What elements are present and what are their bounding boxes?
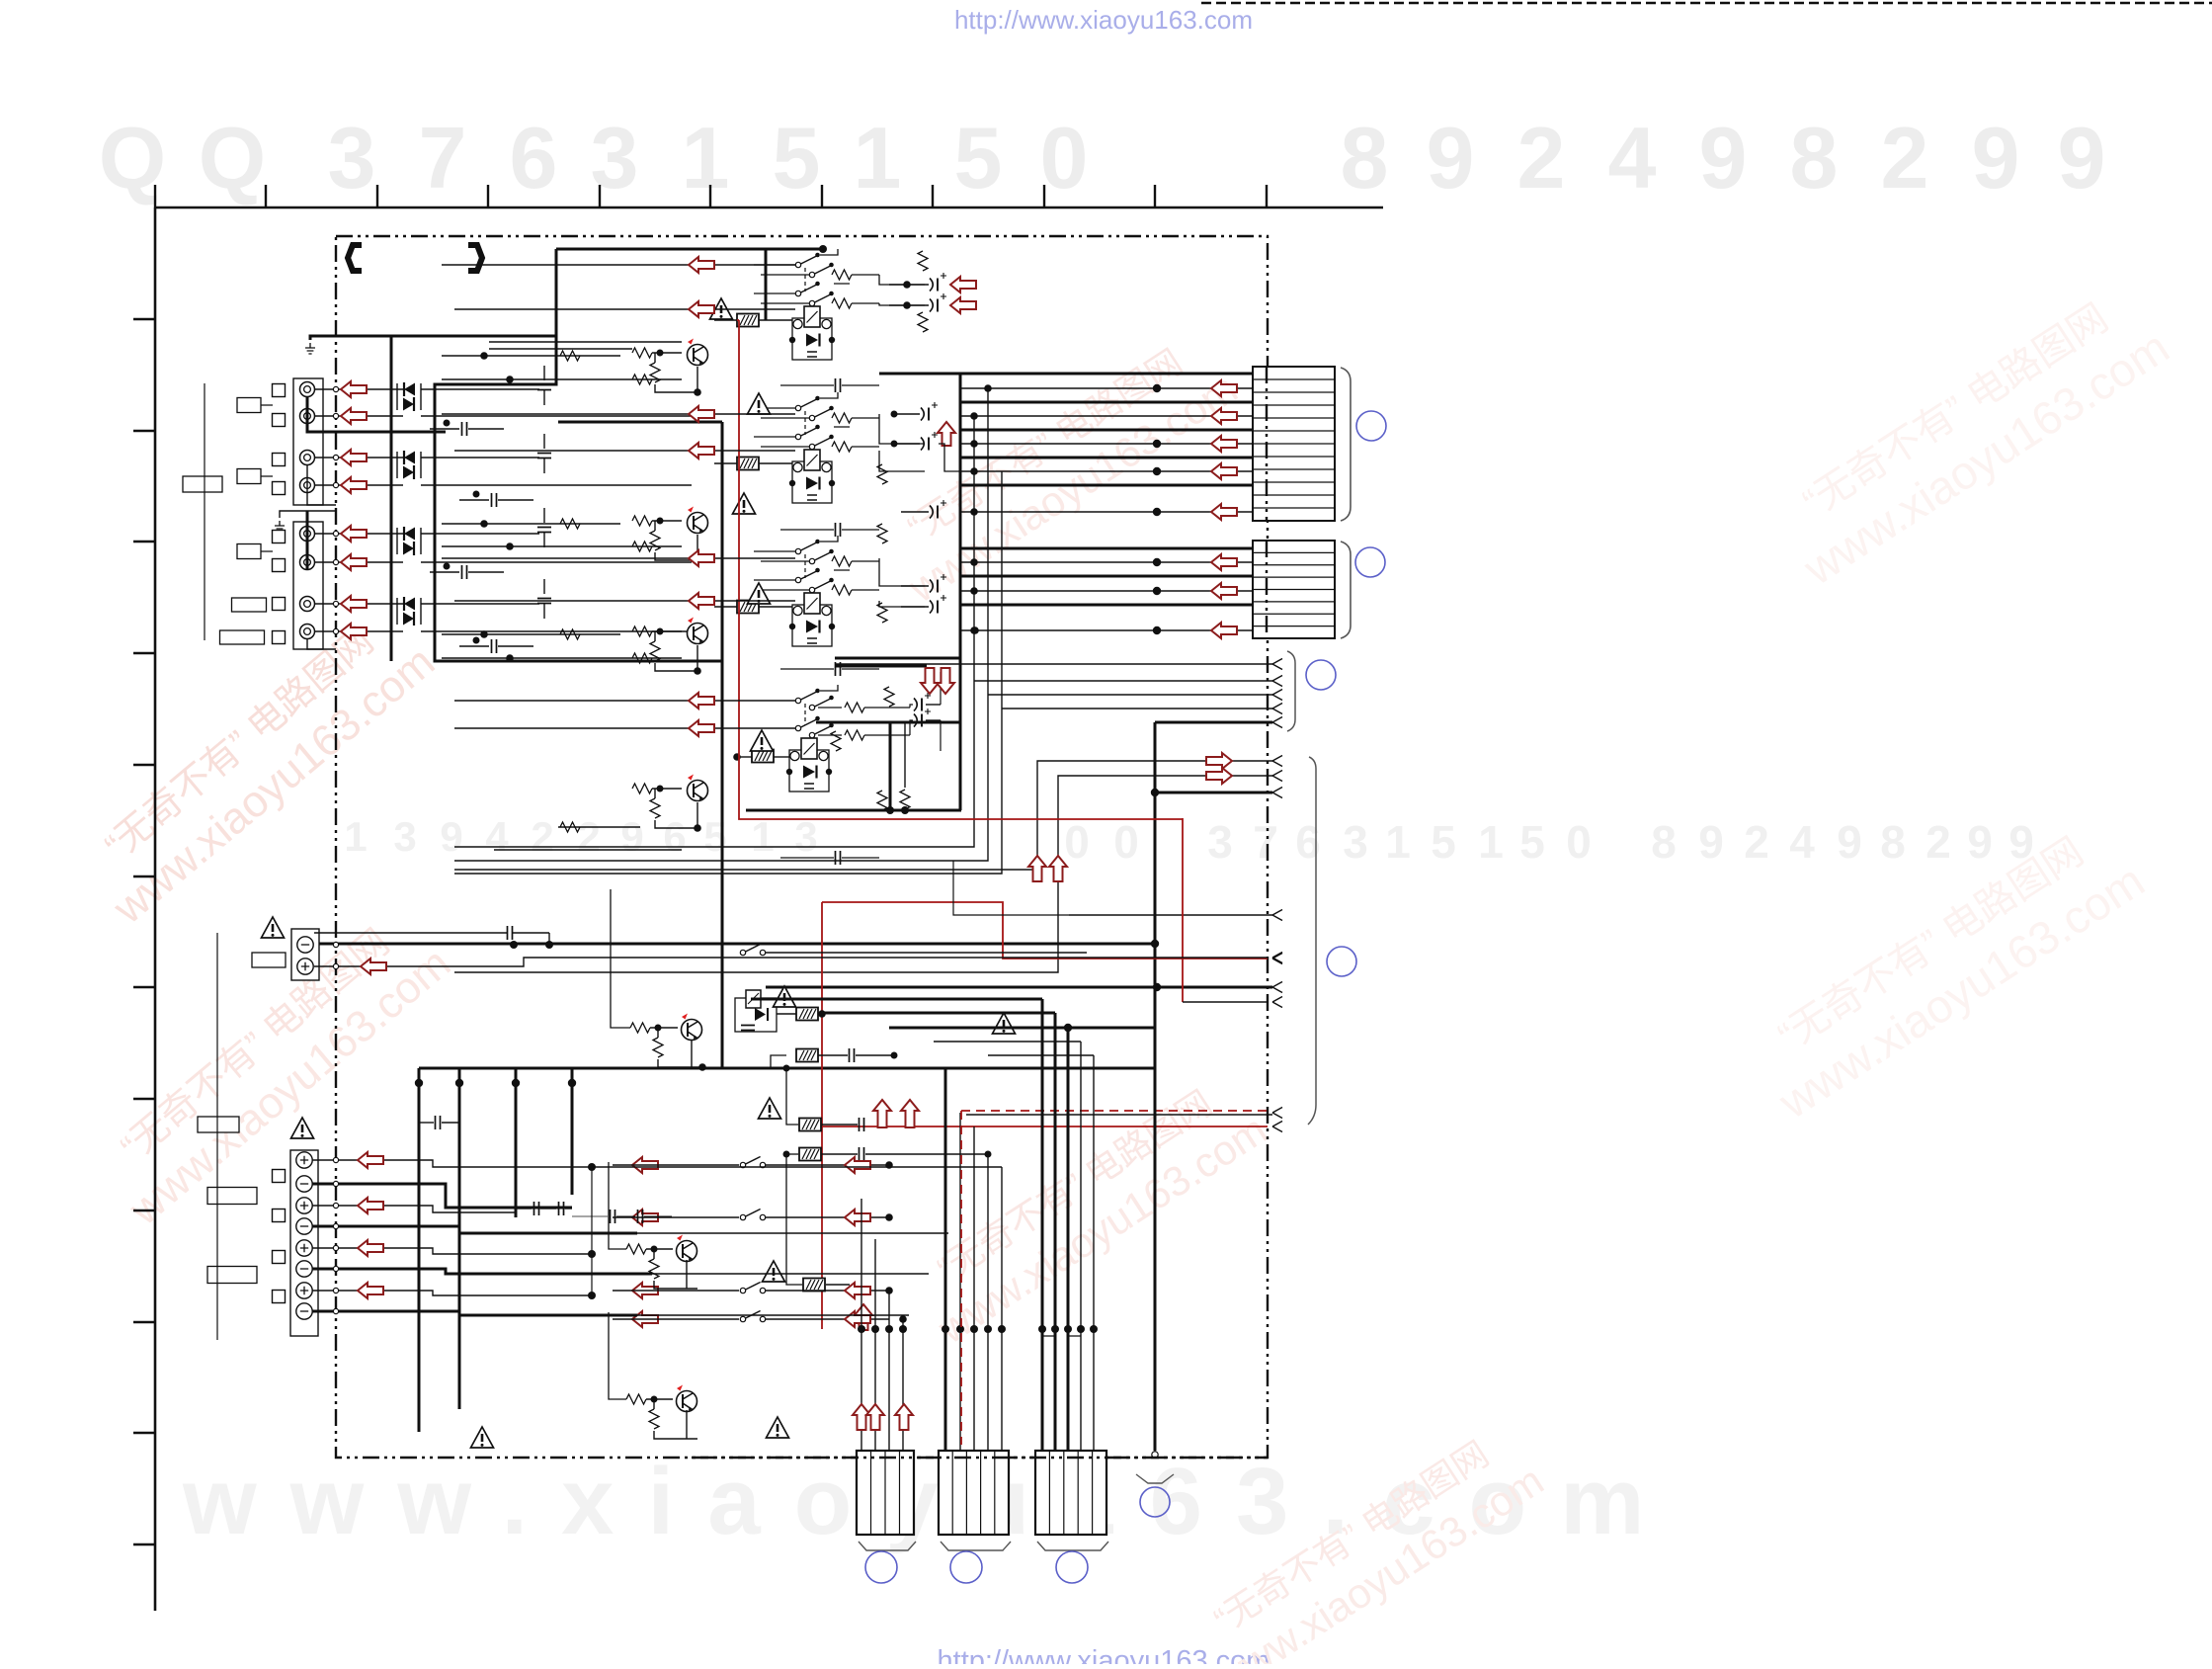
contact set C2 (809, 549, 834, 564)
junction (444, 420, 451, 427)
bundle-C wire 2 (1054, 1013, 1057, 1451)
arrow to CN-B (1211, 583, 1237, 599)
svg-text:9: 9 (1837, 816, 1862, 868)
coupling capacitor (537, 385, 551, 390)
junction on ground bus (1151, 789, 1159, 796)
mid relay cap (741, 1026, 755, 1031)
red supply wire drop (1182, 818, 1184, 1002)
bundle-A wire 2 (874, 1239, 876, 1451)
junction (885, 1287, 893, 1294)
jack block 1 outline (293, 378, 323, 505)
contact series resistor (832, 556, 852, 566)
shield collector riser 3 (454, 471, 1002, 874)
clamp diode @(414,463) (404, 451, 415, 464)
contact set C1 (795, 540, 820, 554)
wire-end arrowhead (1272, 953, 1282, 963)
jack signal wire y=463 (314, 457, 403, 459)
arrow on contact wire (632, 1157, 658, 1173)
series resistor (560, 822, 580, 832)
jack signal wire y=540 (314, 533, 403, 535)
wire to CN-B pin 1 (960, 547, 1253, 550)
relay C bottom rail y=666 (835, 657, 960, 660)
bottom up arrow 1 (853, 1404, 870, 1430)
relay cap B (836, 523, 841, 537)
junction on CN-A wire (1153, 508, 1161, 516)
bundle-C wire 3 (1080, 1042, 1082, 1451)
contact common wire (754, 392, 838, 408)
jack arrow (341, 624, 367, 639)
terminal (-) (296, 1261, 312, 1277)
svg-text:9: 9 (1427, 109, 1475, 207)
resistor feeds (786, 1068, 798, 1125)
jack shield stub 2 (307, 638, 336, 649)
contact set D3 (795, 716, 820, 731)
wire-end arrowhead (1272, 676, 1282, 687)
clamp diode @(414,409) (403, 397, 414, 411)
collector junction (970, 508, 978, 516)
boundary pin (333, 601, 338, 606)
red supply joins resistor boxes (737, 319, 739, 321)
boundary pin (333, 1266, 338, 1271)
down arrow 2 (937, 668, 954, 694)
contact output wire (766, 1164, 889, 1166)
red wire to exit y=970 (822, 902, 1268, 959)
electrolytic cap C-B2 (921, 432, 938, 451)
up arrow right 1 (1028, 856, 1046, 881)
svg-text:8: 8 (1880, 816, 1906, 868)
bundle-C wire 3 (1067, 1028, 1070, 1451)
component pad square 5 (273, 531, 286, 543)
interconnect wire (442, 523, 620, 525)
wire to CN-B pin 6 (960, 629, 1253, 631)
contact D common (820, 685, 838, 691)
Q5 base resistor (630, 1023, 650, 1033)
jog into cap D2 (910, 720, 913, 735)
fusible resistor feeding RY4 (752, 750, 774, 763)
terminal (-) (296, 1218, 312, 1234)
return drop x=424 (418, 1068, 421, 1432)
down arrow 1 (921, 668, 939, 694)
CN-C bracket (859, 1542, 916, 1550)
transistor Q6 (677, 1235, 697, 1262)
jack arrow (341, 554, 367, 570)
thick bus x=972 (959, 374, 962, 810)
red dashed wire (961, 1110, 1268, 1112)
speaker wire y=1220 (312, 1206, 516, 1212)
svg-text:9: 9 (2058, 109, 2106, 207)
interconnect wire (489, 348, 632, 350)
bundle-C arm 3 (934, 1041, 1081, 1043)
arrow to CN-A (1211, 436, 1237, 452)
fusible resistor feeding RY3 (737, 601, 759, 614)
cap (850, 1048, 855, 1062)
arrow right (845, 1311, 870, 1327)
component pad square 2 (273, 414, 286, 427)
RCA jack @y=569 (300, 555, 315, 570)
junction (1064, 1024, 1072, 1032)
fusible resistor (799, 1148, 821, 1161)
resistor row D2 (845, 703, 864, 712)
wire to CN-B pin 5 (960, 604, 1253, 607)
drawing frame: left ruler line (154, 208, 157, 1611)
junction (971, 626, 979, 634)
junction on CN-B wire (1153, 587, 1161, 595)
electrolytic cap C-D2 (914, 709, 931, 727)
diode rail verticals (396, 383, 398, 625)
thick exit y=731 from ground bus (1155, 721, 1272, 724)
left ruler tick 4 (133, 652, 155, 654)
relay D bottom rail y=820 (746, 809, 961, 812)
relay D resistor (900, 790, 910, 809)
warning triangle (748, 393, 771, 414)
CN-D bracket (941, 1542, 1011, 1550)
svg-text:4: 4 (1608, 109, 1657, 207)
boundary pin (333, 1223, 338, 1228)
pink watermark left (71, 599, 444, 934)
svg-text:2: 2 (577, 813, 600, 860)
main thick bus from (-) terminal (307, 943, 1155, 946)
svg-text:8: 8 (1790, 109, 1839, 207)
left ruler tick 9 (133, 1210, 155, 1211)
wire-end arrowhead (1272, 997, 1282, 1008)
RCA jack @y=463 (300, 451, 315, 465)
thick bus x=731 (721, 422, 724, 1069)
junction riser (591, 1167, 593, 1295)
CN-D reference circle (950, 1551, 982, 1583)
left arrow on interconnect (689, 443, 714, 459)
arrow to CN-A (1211, 408, 1237, 424)
left label boxes (237, 398, 261, 413)
Q1 emitter resistor (650, 363, 660, 382)
faint serial-number watermark row (middle-right) (1064, 816, 2034, 868)
faint serial-number watermark row (middle-left) (344, 813, 817, 860)
svg-text:9: 9 (1972, 109, 2020, 207)
wire-end arrowhead (1272, 982, 1282, 993)
speaker wire y=1174 (312, 1160, 592, 1167)
warning triangle mid (774, 986, 796, 1007)
wire to CN-A pin 8 (960, 470, 1253, 472)
left arrow on interconnect (689, 720, 714, 736)
bottom up arrow 2 (866, 1404, 884, 1430)
terminal (+) (296, 1283, 312, 1298)
boundary pin (333, 1181, 338, 1186)
thick bus y=427 (558, 421, 722, 424)
top ruler tick 11 (1266, 185, 1268, 208)
jack row extension y=540 (421, 533, 539, 535)
contact set D1 (795, 689, 820, 704)
speaker mesh run 3 (652, 1273, 929, 1275)
warning triangle mid (993, 1013, 1016, 1034)
wire to CN-A pin 1 (879, 373, 1253, 376)
speaker wire y=1198 (312, 1184, 572, 1208)
series resistor (560, 629, 580, 639)
fusible resistor feeding RY1 (737, 314, 759, 327)
arrow to CN-A (1211, 380, 1237, 396)
svg-text:3: 3 (328, 109, 376, 207)
jack2 shield wire (306, 511, 309, 569)
svg-text:8: 8 (1651, 816, 1677, 868)
Q7 emitter resistor (649, 1409, 659, 1429)
interconnect wire (442, 378, 682, 380)
jack row extension y=463 (421, 457, 539, 459)
terminal (-) (296, 1303, 312, 1319)
red wire exit (822, 1126, 1268, 1127)
boundary pin (333, 1245, 338, 1250)
svg-text:2: 2 (1744, 816, 1769, 868)
svg-text:3: 3 (1343, 816, 1368, 868)
mid relay diode (755, 1008, 766, 1021)
top ruler tick 4 (487, 185, 489, 208)
contact series resistor 2 (832, 585, 852, 595)
CN-A bracket (1341, 368, 1351, 521)
block boundary (dash-dot) (336, 236, 1268, 1458)
contact set A1 (795, 253, 820, 268)
protect contact S3 (740, 1210, 765, 1220)
interconnect wire (454, 450, 795, 452)
Q3 emitter resistor (650, 641, 660, 661)
svg-text:Q: Q (199, 109, 266, 207)
red dashed vertical (960, 1111, 962, 1445)
svg-text:2: 2 (1881, 109, 1929, 207)
top ruler tick 8 (932, 185, 934, 208)
junction on bus (510, 941, 518, 949)
cluster B to cap 2 (879, 451, 925, 471)
arrow (632, 1311, 658, 1327)
interconnect wire (494, 849, 682, 851)
thick exit wire y=999 (766, 986, 1272, 989)
left ruler tick 6 (133, 876, 155, 877)
CN-E reference circle (1056, 1551, 1088, 1583)
coupling capacitor (462, 565, 467, 579)
arrow to CN-A (1211, 504, 1237, 520)
arrow on contact wire right (845, 1210, 870, 1225)
pink watermark bottom-right (1180, 1416, 1551, 1669)
junction on drop (415, 1079, 423, 1087)
junction (506, 654, 514, 662)
warning triangle (733, 493, 756, 514)
shield collector riser 1 (454, 416, 974, 847)
return drop x=465 (458, 1068, 461, 1409)
boundary pin (333, 1203, 338, 1208)
jack arrow (341, 526, 367, 542)
bundle-B wire 3 (973, 1127, 975, 1451)
wire-end arrowhead (1272, 717, 1282, 728)
cap lead (543, 579, 545, 594)
exit wire y=1014 (1183, 1001, 1268, 1003)
jack row long extension y=569 (421, 561, 692, 563)
terminal (+) (296, 1152, 312, 1168)
relay cap D (836, 851, 841, 865)
svg-text:2: 2 (1517, 109, 1566, 207)
main ground bus x=1169 (1154, 722, 1157, 1451)
contact set D4 (809, 723, 834, 738)
fusible resistor feeding RY2 (737, 458, 759, 470)
tall exit bracket (1308, 757, 1316, 1125)
interconnect wire (454, 727, 795, 729)
connect squares to labels (261, 405, 273, 551)
up arrow mid 1 (873, 1100, 891, 1127)
fusible resistor (796, 1049, 818, 1062)
svg-text:1: 1 (751, 813, 774, 860)
svg-text:0: 0 (1064, 816, 1090, 868)
warning triangle (748, 583, 771, 604)
return drop x=579 (571, 1068, 574, 1195)
svg-text:5: 5 (773, 109, 821, 207)
jack row extension y=394 (421, 388, 539, 390)
ground reference circle (1140, 1487, 1170, 1517)
up arrow mid 2 (901, 1100, 919, 1127)
wire-end arrowhead (1272, 659, 1282, 670)
wire to CN-A pin 9 (960, 484, 1253, 487)
jack signal wire y=394 (314, 388, 403, 390)
coupling capacitor (492, 493, 497, 507)
fusible resistor (799, 1119, 821, 1131)
bias resistor (918, 251, 928, 271)
svg-text:1: 1 (1478, 816, 1504, 868)
return drop x=522 (515, 1068, 518, 1217)
terminal (-) (296, 1176, 312, 1192)
warning triangle (291, 1118, 314, 1138)
jog into cap D1 (910, 705, 913, 708)
speaker mesh run 2 (637, 1232, 948, 1234)
arrow on exit wire (1206, 753, 1232, 769)
junction (506, 376, 514, 383)
interconnect wire (442, 355, 620, 357)
left arrow on interconnect (689, 406, 714, 422)
wire-end arrowhead (1272, 788, 1282, 798)
resistor row D4 (845, 730, 864, 740)
boundary pin (333, 559, 338, 564)
top ruler tick 5 (599, 185, 601, 208)
speaker line arrow (358, 1152, 383, 1168)
wire to CN-A pin 3 (960, 401, 1253, 404)
left ruler tick 11 (133, 1432, 155, 1434)
bundle-C arm 2 (820, 1012, 1055, 1015)
junction on CN-B wire (1153, 626, 1161, 634)
pink watermark center-lower (903, 1065, 1274, 1353)
mid relay block (735, 998, 777, 1032)
aux arrow (361, 959, 386, 974)
svg-text:6: 6 (663, 813, 686, 860)
CN-A reference circle (1356, 411, 1386, 441)
contact series resistor 2 (832, 298, 852, 308)
left ruler tick 7 (133, 986, 155, 988)
red wire exit arrowhead (1272, 954, 1282, 964)
jack signal wire y=611 (314, 603, 403, 605)
contact set A2 (809, 263, 834, 278)
warning triangle mid (763, 1261, 785, 1282)
junction (480, 352, 488, 360)
wire to CN-A pin 7 (960, 457, 1253, 459)
contact set B4 (809, 435, 834, 450)
svg-text:4: 4 (485, 813, 509, 860)
resistor lead (714, 319, 737, 321)
left guide line lower (216, 933, 218, 1340)
up arrow lower (855, 1304, 872, 1330)
cap D drains (940, 672, 942, 751)
arrow right (845, 1283, 870, 1298)
jack signal wire y=569 (314, 561, 403, 563)
warning triangle (710, 298, 733, 319)
speaker mesh run 4 (637, 1314, 909, 1316)
faint serial-number watermark row (top) (99, 109, 2106, 207)
jack block 2 ground wire (280, 511, 336, 518)
zobel cap 3 (559, 1202, 564, 1215)
svg-text:9: 9 (620, 813, 643, 860)
junction (444, 563, 451, 570)
jack signal wire y=639 (314, 630, 403, 632)
left arrow on interconnect (689, 550, 714, 566)
left vertical guide line (204, 383, 205, 640)
bundle-C arm 3 (to ground bus) (889, 1027, 1155, 1030)
boundary pin (333, 628, 338, 633)
boundary pin (333, 1288, 338, 1293)
bias resistor (884, 687, 894, 707)
thick ground bus wire (310, 336, 556, 340)
svg-text:1: 1 (1385, 816, 1411, 868)
junction on CN-A wire (1153, 440, 1161, 448)
series resistor (632, 653, 652, 663)
pink watermark center-upper (873, 324, 1245, 612)
CN-B reference circle (1355, 547, 1385, 577)
junction (588, 1163, 596, 1171)
coupling capacitor (537, 528, 551, 533)
block title bracket right (468, 245, 482, 271)
svg-text:1: 1 (344, 813, 367, 860)
speaker mesh run 1 (592, 1166, 1002, 1168)
bias resistor (877, 524, 887, 543)
component pad square 1 (273, 384, 286, 397)
relay D sense wire (904, 721, 906, 788)
chassis ground chevron (1136, 1474, 1174, 1483)
boundary pin (333, 1157, 338, 1162)
svg-text:4: 4 (1789, 816, 1815, 868)
riser to exit 926 (953, 861, 1069, 915)
jack row long extension y=491 (421, 484, 692, 486)
bundle-B wire 5 (1001, 1167, 1003, 1451)
jack signal wire y=421 (314, 415, 403, 417)
relay RY4 (786, 738, 832, 792)
Q2 base resistor (632, 516, 652, 526)
jack1 shield return (307, 396, 446, 432)
up arrow right 2 (1049, 856, 1067, 881)
RCA jack @y=611 (300, 597, 315, 612)
protect contact S1 (740, 945, 765, 956)
coupling capacitor (537, 454, 551, 459)
up arrow near caps (938, 422, 955, 446)
svg-text:3: 3 (1207, 816, 1233, 868)
cap lead (543, 508, 545, 523)
interconnect wire (442, 557, 795, 559)
jack arrow (341, 450, 367, 465)
contact output wire (766, 1216, 889, 1218)
aux terminal block (291, 929, 319, 980)
wire-end arrowhead (1272, 771, 1282, 782)
arrow after cap (950, 277, 976, 292)
top dashed page split line (1201, 2, 2212, 5)
junction (480, 630, 488, 638)
svg-text:0: 0 (1040, 109, 1089, 207)
boundary pin (333, 413, 338, 418)
junction (480, 520, 488, 528)
arrow on exit wire (1206, 768, 1232, 784)
top ruler tick 10 (1154, 185, 1156, 208)
contact set B3 (795, 425, 820, 440)
series resistor (560, 351, 580, 361)
wire to CN-A pin 5 (960, 429, 1253, 432)
contact common wire (754, 536, 838, 551)
thick bus x=396 (390, 336, 393, 661)
